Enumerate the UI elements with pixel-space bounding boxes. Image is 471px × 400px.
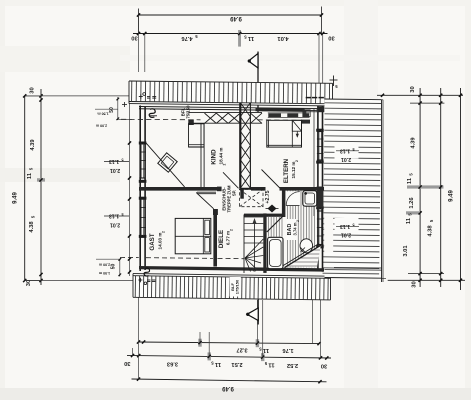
flag symbol bottom: [257, 298, 259, 325]
right total dimension line 9.49: [460, 88, 462, 290]
cupboard strip above bed ELTERN: [268, 112, 310, 114]
svg-text:50: 50: [109, 107, 115, 113]
svg-text:30: 30: [410, 86, 416, 92]
svg-text:2: 2: [162, 231, 166, 233]
wall ELTERN bottom with door: [251, 187, 266, 191]
svg-text:30: 30: [124, 360, 130, 366]
svg-text:5: 5: [352, 222, 354, 226]
terrace hatched deck: [323, 99, 386, 282]
terrace window label upper 1.13 5 / 2.01: [335, 143, 359, 159]
bottom chain dimension line A 3.27|11 5|1.76: [139, 342, 320, 344]
top exterior wall: [139, 109, 324, 111]
svg-text:75/150: 75/150: [185, 105, 190, 119]
svg-text:4.38: 4.38: [428, 225, 434, 237]
bottom exterior wall: [139, 266, 324, 272]
left wall window GAST: [140, 199, 142, 236]
stairwell wall: [263, 213, 266, 273]
left exterior wall: [139, 106, 141, 272]
svg-text:9.49: 9.49: [449, 190, 455, 202]
left total dimension line 9.49: [24, 96, 26, 281]
wall KIND/GAST with door: [139, 187, 217, 191]
svg-text:TREPPE ZUM: TREPPE ZUM: [227, 185, 232, 212]
svg-text:11: 11: [27, 172, 33, 179]
top total dimension line 9.49: [139, 14, 322, 16]
svg-text:+2.75: +2.75: [265, 190, 271, 203]
svg-text:1.50 m: 1.50 m: [99, 271, 110, 275]
right wall window ELTERN: [318, 130, 320, 162]
svg-text:5: 5: [121, 212, 123, 216]
svg-text:4.39: 4.39: [411, 137, 417, 149]
svg-text:3.63: 3.63: [166, 360, 178, 366]
svg-text:4.39: 4.39: [30, 139, 36, 151]
svg-text:175/150: 175/150: [235, 279, 240, 294]
label stair bottom 75/150: [230, 277, 241, 297]
bathtub drain: [271, 262, 274, 265]
svg-text:1.13: 1.13: [340, 147, 350, 153]
washbasin: [303, 191, 317, 207]
radiator KIND: [149, 109, 155, 118]
closet KIND: [189, 124, 205, 147]
bottom total dimension line 9.49: [132, 379, 327, 382]
wall GAST/DIELE: [213, 215, 217, 267]
svg-text:3.01: 3.01: [403, 245, 409, 257]
svg-text:GAST: GAST: [149, 233, 156, 250]
dashed roofline upper: [121, 118, 201, 121]
svg-text:5: 5: [352, 147, 354, 151]
BAD shower corner diagonal: [267, 216, 283, 232]
top extension lines: [144, 34, 146, 73]
terrace corner mark: [333, 76, 335, 87]
bottom chain dimension line B 30|3.63|11 5|2.51|11 5|2.52|30: [127, 355, 331, 358]
staircase treads: [243, 215, 245, 274]
svg-text:3.27: 3.27: [236, 347, 247, 353]
svg-text:11: 11: [406, 217, 412, 224]
svg-text:30: 30: [321, 362, 327, 368]
left sill-height labels top: [117, 97, 119, 120]
svg-text:2.52: 2.52: [287, 362, 298, 368]
svg-text:3.74 m: 3.74 m: [293, 222, 298, 235]
svg-text:4.01: 4.01: [277, 35, 289, 41]
svg-text:30: 30: [30, 87, 36, 93]
svg-text:18.44 m: 18.44 m: [219, 148, 224, 165]
BAD floor tile hatch: [269, 191, 315, 268]
svg-text:2: 2: [296, 220, 300, 222]
svg-text:1.50 m: 1.50 m: [97, 112, 108, 116]
flag symbol top: [257, 52, 259, 113]
svg-text:9.49: 9.49: [13, 192, 19, 204]
svg-text:SP.: SP.: [231, 190, 236, 196]
left wall window KIND: [140, 143, 142, 178]
left window dimension line: [129, 103, 131, 276]
BAD left wall: [282, 187, 286, 217]
label BAD: [287, 219, 298, 240]
KIND diagonal line: [146, 143, 185, 187]
svg-text:11: 11: [268, 362, 275, 368]
svg-text:1.13: 1.13: [340, 223, 350, 229]
right exterior wall: [317, 106, 319, 272]
braced column (chimney shaft): [239, 103, 241, 189]
svg-text:2.51: 2.51: [231, 361, 243, 367]
svg-text:11: 11: [214, 361, 221, 367]
svg-text:1.26: 1.26: [409, 197, 415, 209]
small marks on bottom band: [138, 279, 142, 281]
svg-text:1.13: 1.13: [109, 213, 119, 219]
svg-text:30: 30: [412, 281, 418, 287]
svg-text:11: 11: [262, 347, 269, 353]
top chain dimension line 30|4.76 5|11 5|4.01|30: [133, 33, 328, 35]
right chain dimension line 30|4.39|11 5|1.26|11 5|3.01|30: [419, 88, 421, 287]
staircase walk line arrow: [254, 221, 256, 270]
left dimension connectors: [25, 95, 139, 97]
svg-text:30: 30: [131, 35, 137, 41]
svg-text:11: 11: [407, 177, 413, 184]
bed GAST: [175, 218, 211, 253]
svg-text:2.01: 2.01: [110, 167, 120, 173]
toilet: [300, 239, 313, 253]
svg-text:14.03 m: 14.03 m: [158, 233, 163, 250]
svg-text:2: 2: [295, 160, 299, 162]
svg-text:11: 11: [247, 35, 254, 41]
svg-text:2.01: 2.01: [110, 221, 120, 227]
svg-text:2: 2: [230, 229, 234, 231]
svg-text:DIELE: DIELE: [218, 230, 225, 248]
svg-text:9.49: 9.49: [222, 385, 234, 391]
top balcony hatched band: [129, 81, 333, 106]
svg-text:9.49: 9.49: [230, 15, 242, 21]
svg-text:4.38: 4.38: [29, 221, 35, 233]
svg-text:30: 30: [328, 35, 334, 41]
right wall terrace door BAD: [318, 208, 320, 247]
svg-text:15.12 m: 15.12 m: [291, 162, 296, 179]
svg-text:2.01: 2.01: [341, 156, 351, 162]
right dimension connectors: [377, 94, 463, 96]
right middle dimension line 4.38 5: [440, 88, 442, 287]
loft ladder dashed box (Einschubtreppe): [240, 189, 264, 206]
svg-text:2.01: 2.01: [341, 232, 351, 238]
svg-text:1.76: 1.76: [282, 347, 294, 353]
svg-text:2.00 m: 2.00 m: [96, 124, 107, 128]
bottom extension lines: [138, 298, 140, 380]
left window size label 1.13 5 / 2.01 lower: [104, 215, 129, 217]
svg-text:1.13: 1.13: [109, 158, 119, 164]
svg-text:ELTERN: ELTERN: [283, 158, 290, 183]
small marks below top band: [139, 96, 143, 98]
left chain dimension line 30|4.39|11 5|4.38 5|30: [40, 89, 42, 285]
dashed roofline lower: [120, 256, 139, 258]
bathtub: [268, 237, 283, 268]
svg-text:4.76: 4.76: [181, 35, 193, 41]
svg-text:KIND: KIND: [211, 149, 218, 165]
left sill-height labels bottom: [119, 259, 121, 277]
bed ELTERN: [267, 120, 302, 147]
left window size label 1.13 5 / 2.01 upper: [104, 161, 129, 163]
braced beam over KIND/DIELE: [188, 112, 262, 114]
svg-text:5: 5: [121, 158, 123, 162]
table KIND rotated: [158, 153, 177, 172]
BAD door swing: [286, 191, 299, 205]
wall KIND/DIELE: [200, 123, 202, 189]
bottom balcony hatched band: [133, 274, 331, 300]
svg-text:50: 50: [111, 264, 117, 270]
svg-text:2: 2: [223, 163, 227, 165]
terrace window label lower 1.13 5 / 2.01: [335, 218, 359, 234]
svg-text:6.77 m: 6.77 m: [226, 231, 231, 245]
svg-text:2.00 m: 2.00 m: [99, 263, 110, 267]
radiator GAST: [144, 268, 150, 276]
